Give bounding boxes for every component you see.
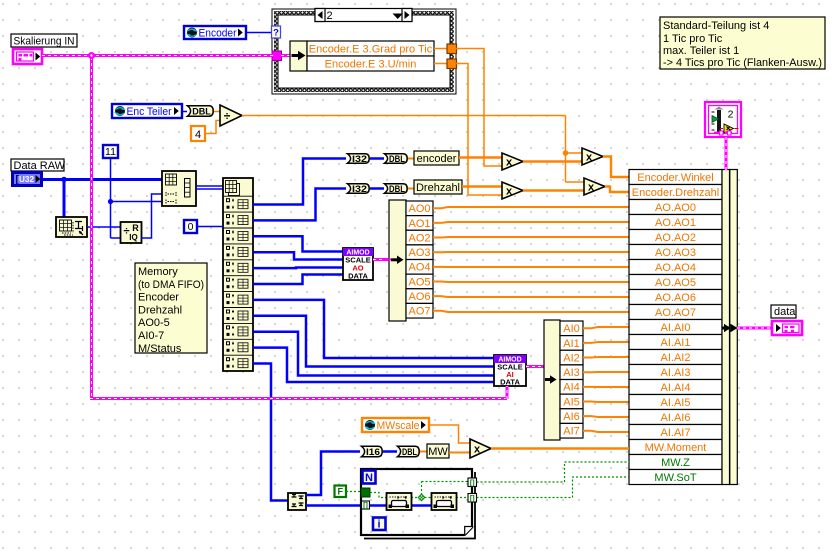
- wire 11 vertical: [111, 158, 122, 238]
- svg-text:x: x: [586, 151, 593, 163]
- svg-text:AO4: AO4: [408, 262, 430, 274]
- svg-text:AI.AI6: AI.AI6: [661, 412, 691, 424]
- svg-text:11: 11: [105, 146, 116, 158]
- svg-text:2: 2: [728, 109, 734, 121]
- svg-text:AO.AO3: AO.AO3: [655, 247, 696, 259]
- svg-text:AI.AI4: AI.AI4: [661, 382, 691, 394]
- wire DBL->label Drehzahl: [408, 188, 414, 190]
- comment Standard-Teilung: [660, 17, 825, 69]
- svg-text:AI3: AI3: [563, 367, 580, 379]
- wire cluster inside case: [281, 54, 291, 57]
- svg-text:N: N: [365, 472, 373, 484]
- svg-text:I32: I32: [352, 184, 367, 195]
- loop iteration terminal i: [373, 518, 386, 531]
- multiply node 2: [502, 182, 523, 199]
- wires AI0-AI7 -> bundle: [583, 327, 629, 328]
- wire cluster vertical trunk: [90, 57, 93, 399]
- svg-text:AO0-5: AO0-5: [138, 317, 170, 329]
- loop node 2 (replace subset): [432, 493, 457, 510]
- svg-text:AI0-7: AI0-7: [138, 330, 164, 342]
- wire ch6 -> AIMOD AI in1: [253, 300, 494, 358]
- conversion I16: [362, 446, 383, 456]
- control Enc Teiler (global): [112, 104, 182, 118]
- wires AO0-AO7 -> bundle: [433, 207, 629, 208]
- wire AIMOD AI cluster out: [526, 365, 544, 368]
- wire cluster trunk overdraw: [42, 54, 273, 57]
- wire subVI -> bundle (cluster): [725, 137, 728, 170]
- wire multiply2->multiply4: [523, 189, 584, 191]
- control MWscale (global): [362, 418, 429, 432]
- svg-text:Encoder.Drehzahl: Encoder.Drehzahl: [632, 187, 719, 199]
- wire multiply4->bundle Encoder.Drehzahl: [605, 187, 629, 193]
- svg-text:1 Tic pro Tic: 1 Tic pro Tic: [663, 33, 723, 45]
- wire cluster riser to AIMOD AI: [506, 386, 509, 399]
- subVI icon (slider, outputs cluster): [705, 102, 741, 137]
- tunnel array in []: [362, 501, 370, 509]
- wire ch2 -> AIMOD AO in1: [253, 236, 343, 251]
- wire 2D array reshape->decimate: [196, 185, 223, 187]
- node Quotient Remainder: [121, 222, 142, 243]
- svg-text:AI.AI0: AI.AI0: [661, 322, 691, 334]
- svg-text:AO.AO1: AO.AO1: [655, 217, 696, 229]
- svg-text:AI2: AI2: [563, 352, 580, 364]
- svg-text:AO3: AO3: [408, 247, 430, 259]
- node Array Size: [56, 217, 87, 237]
- svg-text:Encoder: Encoder: [199, 28, 237, 40]
- wire property row1 to tunnel: [434, 48, 447, 50]
- svg-text:Skalierung IN: Skalierung IN: [14, 36, 75, 48]
- wire boolean -> bundle MW.SoT: [477, 477, 630, 498]
- svg-text:AO.AO0: AO.AO0: [655, 202, 696, 214]
- control terminal Skalierung IN (cluster): [13, 49, 42, 64]
- svg-text:Data RAW: Data RAW: [14, 160, 66, 172]
- case structure frame: [272, 9, 456, 94]
- wire AIMOD AO cluster out: [373, 258, 389, 261]
- svg-text:i: i: [377, 519, 380, 531]
- numeric constant 4: [191, 126, 205, 141]
- svg-text:AO.AO6: AO.AO6: [655, 292, 696, 304]
- svg-text:AI.AI2: AI.AI2: [661, 352, 691, 364]
- svg-text:2: 2: [327, 10, 333, 22]
- bundle by name node: [629, 170, 722, 185]
- wire tunnel1->multiply1: [456, 49, 502, 167]
- wire DBL->MW label: [420, 451, 427, 453]
- wire array inside loop: [370, 504, 456, 507]
- multiply node 4: [584, 178, 605, 195]
- wire ch1 -> I32 Drehzahl: [253, 189, 346, 221]
- wire ch8 -> AIMOD AI in3: [253, 332, 494, 376]
- svg-text:AI.AI1: AI.AI1: [661, 337, 691, 349]
- wire decimate out1 -> I16: [306, 452, 360, 496]
- svg-text:AO.AO7: AO.AO7: [655, 307, 696, 319]
- tunnel DBL out 1 (orange): [447, 44, 457, 54]
- wire F->tunnel: [346, 491, 361, 493]
- svg-text:AO7: AO7: [408, 306, 430, 318]
- numeric constant 0: [184, 220, 197, 233]
- svg-text:encoder: encoder: [417, 153, 457, 165]
- svg-text:Standard-Teilung ist 4: Standard-Teilung ist 4: [663, 20, 769, 32]
- svg-text:Enc Teiler: Enc Teiler: [127, 106, 172, 118]
- wire Data RAW array trunk: [43, 178, 163, 181]
- svg-text:-> 4 Tics pro Tic (Flanken-Aus: -> 4 Tics pro Tic (Flanken-Ausw.): [663, 57, 822, 69]
- svg-text:4: 4: [195, 129, 201, 141]
- svg-text:max. Teiler ist 1: max. Teiler ist 1: [663, 45, 739, 57]
- svg-text:AO0: AO0: [408, 203, 430, 215]
- svg-text:x: x: [474, 443, 481, 455]
- conversion DBL (encoder): [385, 154, 408, 163]
- junction divide output: [563, 150, 569, 156]
- svg-text:I32: I32: [352, 154, 367, 165]
- tunnel boolean out 1 []: [468, 478, 477, 487]
- wire 4->divide: [205, 121, 221, 134]
- node Reshape Array: [162, 171, 196, 206]
- svg-text:DATA: DATA: [348, 272, 368, 281]
- svg-text:AI6: AI6: [563, 411, 580, 423]
- svg-text:MW.Moment: MW.Moment: [645, 442, 707, 454]
- svg-text:DBL: DBL: [192, 107, 211, 118]
- divide node: [220, 105, 242, 126]
- wire decimate out2 -> for loop: [306, 504, 362, 507]
- wire Enc Teiler->DBL: [183, 111, 187, 113]
- tunnel cluster input (pink): [272, 51, 282, 61]
- wire ch5 -> AIMOD AO in4: [253, 275, 343, 285]
- svg-text:Drehzahl: Drehzahl: [416, 182, 460, 194]
- wire property row2 to tunnel: [434, 63, 447, 65]
- multiply node 5: [470, 439, 491, 458]
- wire Encoder->case selector: [247, 32, 272, 34]
- wire ch0 -> I32 encoder: [253, 159, 346, 205]
- svg-text:AO6: AO6: [408, 291, 430, 303]
- wire I32->DBL encoder: [370, 157, 384, 160]
- conversion I32 (encoder): [348, 154, 370, 163]
- conversion DBL (Drehzahl): [385, 184, 408, 193]
- svg-text:0: 0: [188, 221, 194, 233]
- wire cluster bottom horizontal: [90, 397, 507, 400]
- tunnel boolean in (solid green): [361, 488, 370, 497]
- svg-text:Drehzahl: Drehzahl: [138, 304, 182, 316]
- indicator terminal data (cluster): [772, 321, 802, 335]
- label Data RAW: [11, 159, 64, 171]
- wire 0->index: [197, 226, 223, 228]
- svg-text:AO.AO4: AO.AO4: [655, 262, 696, 274]
- svg-text:[]: []: [363, 503, 368, 510]
- svg-text:AI7: AI7: [563, 426, 580, 438]
- wire encoder->multiply1: [459, 156, 502, 158]
- wire divide output (Tic scale): [242, 115, 566, 117]
- junction cluster wire: [88, 52, 95, 59]
- multiply node 1: [502, 153, 523, 170]
- junction Data RAW: [61, 177, 67, 183]
- svg-text:x: x: [506, 156, 513, 168]
- bundle output arrows: [722, 327, 730, 330]
- label data: [771, 305, 796, 318]
- svg-text:MW: MW: [428, 446, 448, 458]
- svg-text:R: R: [132, 223, 139, 233]
- svg-text:(to DMA FIFO): (to DMA FIFO): [138, 279, 204, 291]
- svg-text:AI.AI7: AI.AI7: [661, 427, 691, 439]
- wire ch7 -> AIMOD AI in2: [253, 316, 494, 367]
- unbundle AO (arrow): [389, 200, 406, 321]
- comment Memory: [135, 263, 207, 353]
- svg-text:AO1: AO1: [408, 218, 430, 230]
- wire ch4 -> AIMOD AO in3: [253, 266, 343, 269]
- wire cluster Skalierung->case tunnel: [42, 54, 273, 57]
- svg-text:Encoder.E 3.Grad pro Tic: Encoder.E 3.Grad pro Tic: [309, 44, 433, 56]
- wire ch10 -> decimate M/Status: [253, 364, 288, 501]
- svg-text:?: ?: [273, 28, 279, 39]
- svg-text:I16: I16: [366, 447, 380, 458]
- svg-text:DBL: DBL: [402, 447, 417, 458]
- svg-text:Encoder.Winkel: Encoder.Winkel: [637, 172, 713, 184]
- bundle right strips: [722, 170, 730, 485]
- wire ch9 -> AIMOD AI in4: [253, 348, 494, 382]
- svg-text:MW.Z: MW.Z: [661, 457, 690, 469]
- wire DBL->divide: [214, 111, 221, 113]
- tunnel boolean out 2 []: [468, 494, 477, 503]
- svg-text:AO.AO2: AO.AO2: [655, 232, 696, 244]
- boolean constant F: [335, 486, 347, 498]
- for loop frame (stacked): [364, 472, 475, 539]
- svg-text:IQ: IQ: [129, 233, 137, 242]
- wire 11->reshape dim: [111, 201, 163, 203]
- svg-text:DATA: DATA: [500, 378, 520, 387]
- unbundle AI rows: [560, 321, 583, 336]
- wire boolean inside loop: [370, 493, 387, 498]
- wire MWscale->multiply5: [430, 425, 470, 443]
- wire multiply3->bundle Encoder.Winkel: [603, 157, 629, 178]
- for loop page curl: [464, 526, 474, 536]
- node Index Array (11 rows): [223, 178, 253, 371]
- svg-text:Encoder.E 3.U/min: Encoder.E 3.U/min: [325, 59, 417, 71]
- svg-text:AI0: AI0: [563, 323, 580, 335]
- svg-text:M/Status: M/Status: [138, 343, 182, 355]
- subVI AIMOD SCALE AO DATA: [343, 248, 373, 280]
- tunnel ? (selector input): [272, 26, 281, 38]
- svg-text:AO.AO5: AO.AO5: [655, 277, 696, 289]
- property node Encoder.E 3 (unbundle): [290, 41, 307, 71]
- control Encoder (global): [184, 26, 246, 39]
- unbundle AI (arrow): [544, 320, 560, 440]
- loop count terminal N: [363, 471, 376, 484]
- svg-text:AI.AI3: AI.AI3: [661, 367, 691, 379]
- svg-text:AI5: AI5: [563, 396, 580, 408]
- wire to Array Size: [63, 180, 66, 218]
- wire multiply1->multiply3: [523, 160, 582, 162]
- wire tunnel2->multiply2: [456, 64, 502, 196]
- svg-text:[]: []: [470, 496, 475, 503]
- svg-text:AI.AI5: AI.AI5: [661, 397, 691, 409]
- conversion DBL (Enc Teiler): [188, 106, 214, 116]
- wire Array Size out: [87, 226, 121, 228]
- wire label MW: [427, 444, 449, 458]
- wire boolean -> bundle MW.Z: [477, 462, 630, 482]
- svg-text:U32: U32: [19, 174, 34, 184]
- wire bundle out -> data: [737, 327, 772, 330]
- unbundle AO rows: [406, 201, 433, 216]
- svg-text:AO2: AO2: [408, 232, 430, 244]
- svg-text:DBL: DBL: [389, 154, 405, 165]
- numeric constant 11: [103, 145, 118, 158]
- wire DBL->label encoder: [408, 158, 414, 160]
- svg-text:MWscale: MWscale: [377, 420, 420, 432]
- label Skalierung IN: [11, 34, 77, 47]
- subVI AIMOD SCALE AI DATA: [494, 355, 526, 386]
- multiply node 3: [582, 148, 603, 165]
- svg-text:[]: []: [470, 480, 475, 487]
- case selector label: [315, 9, 412, 22]
- svg-text:Memory: Memory: [138, 266, 178, 278]
- wire multiply5->bundle MW.Moment: [491, 447, 629, 449]
- svg-text:Encoder: Encoder: [138, 292, 179, 304]
- tunnel DBL out 2 (orange): [447, 59, 457, 69]
- junction 11 wire: [108, 199, 113, 204]
- wire Drehzahl->multiply2: [462, 185, 502, 187]
- wire I16->DBL: [383, 450, 397, 453]
- svg-text:AI4: AI4: [563, 382, 580, 394]
- svg-text:F: F: [338, 487, 344, 497]
- svg-text:data: data: [774, 306, 796, 318]
- wire ch3 -> AIMOD AO in2: [253, 252, 343, 259]
- loop node 1 (replace subset): [387, 493, 412, 510]
- conversion DBL (MW): [398, 446, 420, 456]
- wire label Drehzahl: [414, 180, 462, 194]
- svg-text:DBL: DBL: [389, 184, 405, 195]
- conversion I32 (Drehzahl): [348, 184, 370, 193]
- svg-text:AO5: AO5: [408, 276, 430, 288]
- wire I32->DBL Drehzahl: [370, 187, 384, 190]
- svg-text:x: x: [588, 181, 595, 193]
- control terminal Data RAW [U32]: [13, 173, 42, 186]
- wire MW->multiply5: [449, 452, 470, 454]
- svg-text:x: x: [506, 185, 513, 197]
- svg-text:MW.SoT: MW.SoT: [654, 472, 696, 484]
- svg-text:AI1: AI1: [563, 338, 580, 350]
- node Decimate 1D Array (M/Status): [288, 493, 306, 510]
- junction boolean (diamond): [418, 494, 424, 500]
- svg-text:÷: ÷: [224, 109, 231, 123]
- wire QR IQ out -> reshape dim: [141, 194, 162, 238]
- wire label encoder: [414, 151, 459, 165]
